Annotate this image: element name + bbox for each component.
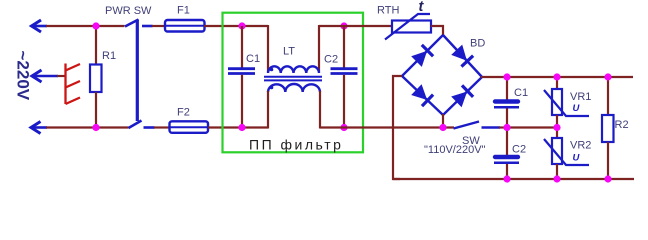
svg-text:VR1: VR1 (570, 91, 591, 103)
svg-text:F2: F2 (177, 107, 190, 119)
label R2 (615, 119, 629, 131)
fuse F2 (170, 121, 209, 133)
label C1 filter (246, 53, 260, 65)
varistor VR2 (544, 128, 589, 180)
switch PWR SW mechanical link (136, 20, 139, 122)
label C1 right (514, 87, 528, 99)
svg-text:R2: R2 (615, 119, 629, 131)
node L input arrow (32, 20, 48, 32)
label RTH (377, 5, 399, 17)
wire LT top to C2 top and out to RTH (319, 25, 392, 27)
label BD (470, 38, 485, 50)
wire bridge minus to bottom rail (393, 76, 402, 179)
node PE middle arrow (32, 70, 58, 82)
svg-text:LT: LT (283, 46, 295, 58)
edges (402, 35, 443, 76)
svg-text:U: U (573, 103, 581, 114)
resistor R1 (90, 26, 102, 128)
svg-text:RTH: RTH (377, 5, 399, 17)
label SW (462, 135, 480, 147)
wire middle rail C1C2 to VR (507, 126, 557, 128)
label 110V/220V (424, 144, 486, 156)
switch SW 110V/220V (454, 122, 501, 129)
node junction bottom rail C2 (503, 175, 510, 182)
svg-text:VR2: VR2 (570, 140, 591, 152)
label U vr1 (573, 103, 581, 114)
node junction filter C2 top (340, 22, 347, 29)
label C2 filter (324, 54, 338, 66)
wire F2 to LT corner (208, 126, 268, 128)
capacitor C2 (filter) (331, 26, 358, 128)
node junction top of R1 (92, 22, 99, 29)
node junction bottom of R1 (92, 124, 99, 131)
wire top rail right (481, 76, 633, 78)
node junction filter C1 bottom (238, 124, 245, 131)
node junction top rail C1 (503, 73, 510, 80)
label F2 (177, 107, 190, 119)
svg-text:C1: C1 (246, 53, 260, 65)
node junction top rail VR1 (553, 73, 560, 80)
diode top-left (411, 45, 433, 67)
svg-text:C1: C1 (514, 87, 528, 99)
capacitor C1 (filter) (228, 26, 255, 128)
wire middle arrow to plug (57, 75, 65, 77)
label F1 (177, 5, 190, 17)
node junction top rail R2 (604, 73, 611, 80)
diode top-right (451, 44, 473, 66)
svg-text:U: U (573, 153, 581, 164)
node junction bridge bottom (439, 124, 446, 131)
wire RTH to bridge top (431, 26, 443, 36)
green box ПП фильтр (223, 13, 364, 153)
label R1 (102, 50, 116, 62)
label PWR SW (105, 5, 152, 17)
switch PWR SW bottom pole (129, 121, 155, 129)
label ПП фильтр (249, 137, 343, 153)
wire SW to C1C2 junction (499, 126, 507, 128)
node N input arrow (31, 122, 47, 134)
svg-text:F1: F1 (177, 5, 190, 17)
fuse F1 (165, 20, 205, 32)
label U vr2 (573, 153, 581, 164)
wire PWR SW to F1 (152, 25, 166, 27)
wire LT bottom to C2 bottom and out to bridge (320, 126, 454, 128)
svg-text:~220V: ~220V (14, 51, 33, 101)
switch PWR SW top pole (125, 20, 153, 27)
varistor VR1 (544, 77, 589, 128)
label VR2 (570, 140, 591, 152)
node junction filter C1 top (238, 22, 245, 29)
svg-text:"110V/220V": "110V/220V" (424, 144, 486, 156)
resistor R2 (602, 77, 614, 179)
mains plug symbol (66, 64, 81, 105)
wire F2 left lead (154, 126, 170, 128)
svg-text:C2: C2 (512, 144, 526, 156)
wire bridge bottom lead (442, 114, 444, 128)
node junction middle C1C2 (503, 124, 510, 131)
label C2 right (512, 144, 526, 156)
node junction bottom rail R2 (604, 175, 611, 182)
wire top input to PWR SW (46, 25, 125, 27)
svg-text:C2: C2 (324, 54, 338, 66)
inductor LT common-mode choke (264, 25, 322, 129)
capacitor C2 (right, electrolytic) (494, 128, 519, 180)
label ~220V (14, 51, 33, 101)
diode bottom-left (411, 84, 433, 106)
svg-text:R1: R1 (102, 50, 116, 62)
svg-text:PWR SW: PWR SW (105, 5, 152, 17)
wire bottom rail (393, 178, 634, 180)
node junction bottom rail VR2 (553, 175, 560, 182)
svg-text:BD: BD (470, 38, 485, 50)
svg-text:ПП фильтр: ПП фильтр (249, 137, 343, 153)
wire bottom input to PWR SW (46, 126, 129, 128)
label VR1 (570, 91, 591, 103)
label LT (283, 46, 295, 58)
label t (419, 0, 425, 15)
node junction filter C2 bottom (340, 124, 347, 131)
diode bottom-right (451, 85, 473, 107)
wire F1 to LT corner (204, 25, 268, 27)
capacitor C1 (right, electrolytic) (494, 77, 519, 128)
bridge rectifier BD (402, 35, 482, 115)
thermistor RTH (385, 14, 431, 40)
node junction middle VR1VR2 (553, 124, 560, 131)
